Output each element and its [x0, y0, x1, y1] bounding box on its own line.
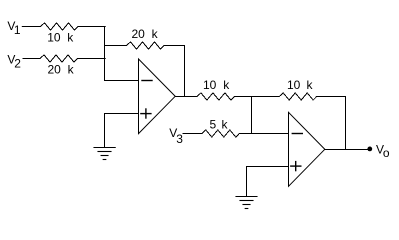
wire U1 output — [175, 96, 197, 98]
wire U2 output — [325, 149, 370, 151]
wire to U1 inverting input — [105, 80, 139, 82]
svg-text:2: 2 — [14, 56, 21, 70]
svg-text:k: k — [222, 117, 229, 131]
resistor R3 10 k zigzag — [197, 93, 235, 100]
svg-text:k: k — [307, 78, 314, 92]
value label 10 k (R3) — [203, 78, 230, 92]
wire V3 lead — [183, 133, 202, 135]
svg-text:3: 3 — [176, 132, 183, 146]
value label 5 k (R5) — [210, 117, 229, 131]
value label 10 k (Rf2) — [287, 78, 314, 92]
value label 20 k (R2) — [48, 63, 75, 77]
value label 10 k (R1) — [47, 30, 74, 44]
wire feedback tap — [105, 45, 127, 47]
ground symbol GND2 — [236, 197, 257, 209]
wire feedback vertical drop U1 — [184, 46, 186, 97]
U1 plus sign — [141, 109, 151, 118]
U2 plus sign — [291, 162, 301, 171]
ground symbol GND1 — [94, 148, 115, 160]
svg-text:k: k — [68, 63, 75, 77]
svg-text:5: 5 — [210, 117, 217, 131]
svg-text:20: 20 — [48, 63, 62, 77]
wire R3 to node A — [234, 96, 279, 98]
op-amp U1 triangle — [139, 59, 176, 134]
svg-text:k: k — [67, 30, 74, 44]
wire Rf1 to corner — [164, 45, 185, 47]
op-amp U2 triangle — [289, 112, 325, 186]
wire V2 lead — [23, 58, 40, 60]
U2 minus sign — [292, 133, 302, 135]
output terminal dot — [367, 147, 372, 152]
svg-text:10: 10 — [47, 30, 61, 44]
node V3 label — [169, 126, 183, 146]
svg-text:o: o — [383, 146, 390, 160]
U1 minus sign — [142, 80, 152, 82]
wire feedback vertical drop U2 — [345, 97, 347, 150]
wire R1 to input junction — [78, 26, 105, 28]
resistor Rf2 10 k zigzag — [279, 93, 317, 100]
node V1 label — [7, 19, 21, 37]
value label 20 k (Rf1) — [132, 27, 159, 41]
svg-text:20: 20 — [132, 27, 146, 41]
wire ground drop U1 — [104, 114, 106, 148]
svg-text:1: 1 — [14, 23, 21, 37]
node V2 label — [7, 52, 21, 70]
wire ground drop U2 — [246, 167, 248, 197]
wire U1 noninverting input — [105, 113, 139, 115]
resistor R1 10 k zigzag — [41, 23, 79, 30]
svg-text:k: k — [223, 78, 230, 92]
resistor Rf1 20 k zigzag — [127, 42, 165, 49]
wire V1 lead — [22, 26, 40, 28]
wire U2 noninverting input — [247, 166, 289, 168]
wire Rf2 to corner — [317, 96, 346, 98]
wire node A vertical drop — [251, 97, 253, 134]
svg-text:10: 10 — [203, 78, 217, 92]
resistor R2 20 k zigzag — [40, 55, 78, 62]
svg-text:10: 10 — [287, 78, 301, 92]
svg-text:k: k — [152, 27, 159, 41]
node Vo label — [376, 143, 390, 161]
wire input junction vertical — [104, 27, 106, 81]
wire R2 to input junction — [78, 58, 106, 60]
wire R5 to U2 inverting input — [239, 133, 288, 135]
resistor R5 5 k zigzag — [202, 130, 240, 137]
